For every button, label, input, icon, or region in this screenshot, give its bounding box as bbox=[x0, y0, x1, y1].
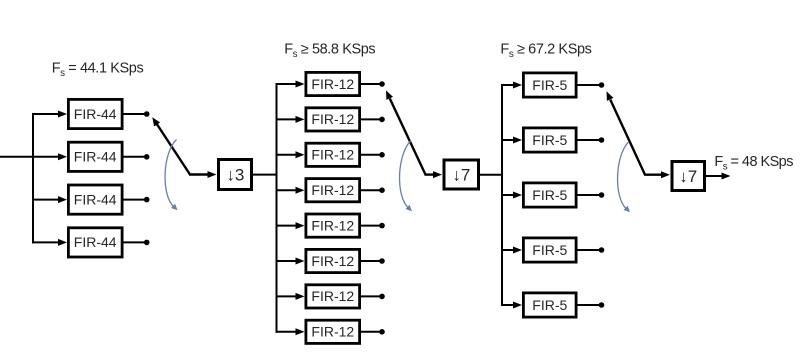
wire ↓7 to splitter section 3 bbox=[480, 174, 504, 176]
filter FIR-12 #7 bbox=[306, 285, 360, 308]
filter FIR-5 #1 bbox=[523, 73, 576, 97]
output node FIR-44 #1 bbox=[124, 111, 150, 117]
filter FIR-5 #3 bbox=[523, 183, 576, 207]
splitter bus wire section 3 bbox=[501, 84, 503, 306]
filter FIR-12 #4 bbox=[306, 179, 360, 202]
output node FIR-12 #4 bbox=[361, 187, 385, 193]
splitter bus wire section 1 bbox=[32, 113, 34, 243]
filter FIR-5 #4 bbox=[523, 238, 576, 262]
svg-text:↓7: ↓7 bbox=[679, 167, 697, 186]
svg-text:Fs = 44.1 KSps: Fs = 44.1 KSps bbox=[52, 60, 144, 79]
input wire into FIR-44 #2 bbox=[0, 153, 67, 160]
svg-text:FIR-5: FIR-5 bbox=[532, 187, 567, 203]
filter FIR-12 #8 bbox=[306, 320, 360, 343]
decimator ↓7 (right) bbox=[672, 162, 705, 191]
filter FIR-5 #5 bbox=[523, 293, 576, 317]
rotation arrow (blue) section 3 bbox=[618, 142, 630, 213]
svg-text:↓7: ↓7 bbox=[452, 166, 470, 185]
svg-text:FIR-5: FIR-5 bbox=[532, 77, 567, 93]
wire to FIR-12 #8 bbox=[276, 328, 305, 335]
filter FIR-44 #1 bbox=[68, 99, 122, 128]
wire to FIR-5 #1 bbox=[501, 82, 522, 89]
output node FIR-12 #3 bbox=[361, 152, 385, 158]
splitter bus wire section 2 bbox=[276, 83, 278, 333]
output node FIR-44 #3 bbox=[124, 197, 150, 203]
filter FIR-12 #5 bbox=[306, 214, 360, 237]
wire to FIR-5 #5 bbox=[501, 302, 522, 309]
output node FIR-5 #2 bbox=[578, 137, 605, 143]
filter FIR-5 #2 bbox=[523, 128, 576, 152]
wire to FIR-5 #2 bbox=[501, 137, 522, 144]
svg-text:Fs ≥ 58.8 KSps: Fs ≥ 58.8 KSps bbox=[284, 41, 375, 60]
svg-text:FIR-44: FIR-44 bbox=[74, 149, 117, 165]
output node FIR-5 #1 bbox=[578, 82, 605, 88]
commutator switch arm section 2 bbox=[386, 90, 426, 174]
svg-text:FIR-44: FIR-44 bbox=[74, 234, 117, 250]
wire to FIR-12 #3 bbox=[276, 151, 305, 158]
filter FIR-12 #3 bbox=[306, 143, 360, 166]
rotation arrow (blue) section 1 bbox=[165, 140, 177, 211]
wire to FIR-44 #1 bbox=[32, 111, 67, 118]
output node FIR-12 #1 bbox=[361, 81, 385, 87]
svg-text:FIR-12: FIR-12 bbox=[311, 111, 354, 127]
wire to FIR-5 #4 bbox=[501, 247, 522, 254]
decimator ↓3 bbox=[219, 160, 252, 190]
wire to FIR-12 #7 bbox=[276, 293, 305, 300]
wire to FIR-44 #4 bbox=[32, 239, 67, 246]
svg-text:FIR-44: FIR-44 bbox=[74, 106, 117, 122]
wire to FIR-44 #3 bbox=[32, 196, 67, 203]
svg-text:↓3: ↓3 bbox=[226, 166, 244, 185]
svg-text:FIR-12: FIR-12 bbox=[311, 147, 354, 163]
wire ↓3 to splitter section 2 bbox=[252, 174, 278, 176]
output node FIR-12 #7 bbox=[361, 294, 385, 300]
wire to FIR-12 #4 bbox=[276, 187, 305, 194]
filter FIR-12 #1 bbox=[306, 72, 360, 95]
svg-text:FIR-5: FIR-5 bbox=[532, 132, 567, 148]
output node FIR-44 #2 bbox=[124, 154, 150, 160]
decimator ↓7 (middle) bbox=[444, 160, 479, 189]
filter FIR-44 #2 bbox=[68, 142, 122, 171]
svg-text:FIR-12: FIR-12 bbox=[311, 76, 354, 92]
svg-text:FIR-12: FIR-12 bbox=[311, 253, 354, 269]
svg-text:FIR-12: FIR-12 bbox=[311, 217, 354, 233]
wire switch to decimator ↓3 bbox=[189, 171, 217, 178]
output node FIR-12 #8 bbox=[361, 329, 385, 335]
svg-text:FIR-5: FIR-5 bbox=[532, 242, 567, 258]
wire to FIR-12 #1 bbox=[276, 81, 305, 88]
wire to FIR-5 #3 bbox=[501, 192, 522, 199]
wire to FIR-12 #2 bbox=[276, 116, 305, 123]
wire switch to decimator ↓7 (middle) bbox=[425, 171, 443, 178]
filter FIR-44 #4 bbox=[68, 228, 122, 257]
wire to FIR-12 #5 bbox=[276, 222, 305, 229]
filter FIR-44 #3 bbox=[68, 185, 122, 214]
svg-text:FIR-12: FIR-12 bbox=[311, 324, 354, 340]
svg-text:Fs ≥ 67.2 KSps: Fs ≥ 67.2 KSps bbox=[500, 41, 591, 60]
filter FIR-12 #2 bbox=[306, 108, 360, 131]
svg-text:Fs = 48 KSps: Fs = 48 KSps bbox=[714, 154, 793, 173]
filter FIR-12 #6 bbox=[306, 249, 360, 272]
output node FIR-44 #4 bbox=[124, 240, 150, 246]
output node FIR-12 #2 bbox=[361, 117, 385, 123]
output node FIR-5 #3 bbox=[578, 192, 605, 198]
output node FIR-12 #5 bbox=[361, 223, 385, 229]
output node FIR-5 #5 bbox=[578, 302, 605, 308]
output wire Fs = 48 KSps bbox=[706, 173, 731, 180]
wire switch to decimator ↓7 (right) bbox=[644, 171, 670, 178]
svg-text:FIR-5: FIR-5 bbox=[532, 297, 567, 313]
wire to FIR-12 #6 bbox=[276, 258, 305, 265]
output node FIR-12 #6 bbox=[361, 258, 385, 264]
commutator switch arm section 1 bbox=[152, 117, 190, 174]
commutator switch arm section 3 bbox=[607, 91, 646, 174]
svg-text:FIR-44: FIR-44 bbox=[74, 191, 117, 207]
output node FIR-5 #4 bbox=[578, 247, 605, 253]
svg-text:FIR-12: FIR-12 bbox=[311, 182, 354, 198]
svg-text:FIR-12: FIR-12 bbox=[311, 288, 354, 304]
rotation arrow (blue) section 2 bbox=[400, 141, 412, 212]
